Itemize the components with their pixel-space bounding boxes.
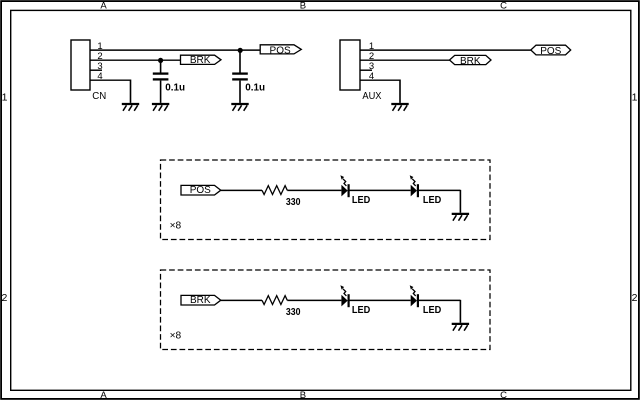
svg-text:1: 1 — [632, 91, 638, 103]
svg-text:CN: CN — [92, 91, 106, 102]
net label BRK (AUX pin 2) — [450, 55, 492, 67]
pin 4 — [90, 71, 131, 103]
dashed repeat box (POS LEDs) — [161, 160, 491, 240]
capacitor C1 0.1u — [153, 74, 185, 94]
LED 1 (bottom) — [340, 285, 370, 316]
AUX pin 3 — [360, 61, 374, 72]
wire LED1 to LED2 — [349, 189, 411, 191]
LED 2 (bottom) — [410, 285, 442, 316]
svg-text:A: A — [100, 1, 107, 12]
wire resistor to LED1 — [287, 189, 341, 191]
ground (C1) — [152, 104, 169, 111]
svg-text:LED: LED — [352, 195, 371, 206]
ground (AUX pin 4) — [391, 104, 408, 111]
net tag POS (pin 1) — [260, 45, 301, 57]
ground (middle box) — [452, 214, 469, 221]
wire LED2 to ground — [418, 189, 461, 191]
svg-text:C: C — [500, 390, 507, 400]
wire junction to C1 — [160, 60, 162, 72]
svg-text:BRK: BRK — [190, 55, 211, 66]
svg-text:×8: ×8 — [170, 330, 182, 341]
svg-text:POS: POS — [190, 185, 211, 196]
pin 1 — [90, 41, 260, 52]
svg-text:330: 330 — [286, 197, 301, 208]
wire resistor to LED1 (bottom) — [287, 299, 341, 301]
svg-text:BRK: BRK — [190, 295, 211, 306]
svg-text:B: B — [300, 1, 306, 12]
svg-text:B: B — [300, 390, 306, 400]
dashed repeat box (BRK LEDs) — [161, 270, 491, 350]
svg-text:330: 330 — [286, 307, 301, 318]
svg-text:POS: POS — [270, 46, 291, 57]
AUX pin 4 — [360, 71, 400, 103]
net label POS (AUX pin 1) — [531, 45, 571, 57]
svg-text:4: 4 — [369, 71, 374, 82]
svg-text:2: 2 — [1, 292, 7, 304]
wire C1 to ground — [160, 81, 162, 103]
wire tag to resistor — [221, 189, 262, 191]
svg-text:1: 1 — [2, 91, 8, 103]
wire LED1 to LED2 (bottom) — [349, 299, 411, 301]
LED 2 — [410, 175, 442, 206]
svg-text:LED: LED — [423, 305, 442, 316]
svg-text:0.1u: 0.1u — [245, 82, 265, 93]
svg-text:AUX: AUX — [362, 91, 381, 102]
junction on pin 2 — [158, 58, 163, 63]
svg-text:POS: POS — [540, 46, 561, 57]
junction on pin 1 — [238, 48, 243, 53]
pin 3 — [90, 61, 103, 72]
wire junction to C2 — [239, 50, 241, 72]
LED 1 — [340, 175, 370, 206]
ground (pin 4) — [122, 104, 139, 111]
svg-text:A: A — [100, 390, 107, 400]
ground (bottom box) — [452, 324, 469, 331]
net tag POS (middle box) — [181, 185, 221, 196]
wire tag to resistor (bottom) — [221, 299, 262, 301]
svg-text:BRK: BRK — [460, 56, 481, 67]
resistor 330 — [262, 186, 301, 208]
ground (C2) — [231, 104, 248, 111]
AUX pin 2 — [360, 51, 450, 62]
wire LED2 to ground (bottom) — [418, 299, 461, 301]
svg-text:LED: LED — [352, 305, 371, 316]
net tag BRK (bottom box) — [181, 295, 221, 306]
net tag BRK (pin 2) — [181, 55, 222, 66]
svg-text:×8: ×8 — [170, 220, 182, 231]
svg-text:0.1u: 0.1u — [165, 82, 185, 93]
svg-text:C: C — [500, 1, 507, 12]
svg-text:LED: LED — [423, 195, 442, 206]
svg-text:2: 2 — [632, 292, 638, 304]
connector AUX — [340, 40, 382, 102]
capacitor C2 0.1u — [232, 74, 265, 94]
svg-text:4: 4 — [97, 71, 102, 82]
wire C2 to ground — [239, 81, 241, 103]
resistor 330 (bottom) — [262, 296, 301, 318]
connector CN — [71, 40, 106, 102]
pin 2 — [90, 51, 181, 62]
AUX pin 1 — [360, 41, 531, 52]
